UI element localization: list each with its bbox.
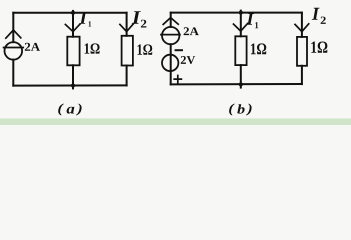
caption (a): letter a bbox=[67, 107, 75, 114]
wire: (a) middle branch upper bbox=[72, 11, 74, 37]
caption (a): paren open bbox=[58, 104, 64, 116]
label I2 (b): I bbox=[312, 8, 320, 20]
caption (b): paren open bbox=[229, 104, 235, 116]
resistor R4 (b) box bbox=[297, 37, 307, 66]
resistor R1 (a) box bbox=[67, 37, 79, 66]
wire: (b) right branch upper bbox=[301, 13, 303, 37]
label I1 (b): I bbox=[246, 13, 254, 24]
label 2A (a) bbox=[25, 43, 40, 51]
label 1 ohm (b) middle bbox=[251, 43, 266, 54]
current source IS2 arrow (up) bbox=[163, 18, 178, 25]
junction node (a) top bbox=[71, 11, 75, 15]
wire: (a) right branch upper bbox=[126, 13, 128, 36]
label I1 (a): I bbox=[79, 12, 87, 23]
wire: (b) middle branch upper bbox=[240, 11, 242, 37]
wire: (a) right branch lower bbox=[126, 66, 128, 86]
junction node (b) bottom bbox=[239, 82, 243, 86]
circuit (a) top wire bbox=[13, 12, 126, 14]
caption (a): paren close bbox=[76, 104, 82, 116]
caption (b): letter b bbox=[237, 104, 244, 113]
label I2 (a): I bbox=[132, 11, 141, 23]
current source IS2 2A circle bbox=[162, 27, 179, 44]
wire: (b) middle branch lower bbox=[240, 65, 242, 88]
arrow I2 (b) (down) bbox=[295, 24, 309, 32]
circuit (b) bottom wire bbox=[171, 83, 302, 85]
current source IS1 arrow (up) bbox=[6, 30, 21, 38]
resistor R3 (b) box bbox=[235, 36, 246, 65]
label I2 (b): sub 2 bbox=[321, 17, 326, 24]
label I1 (a): sub 1 bbox=[89, 21, 92, 26]
green footer strip bbox=[0, 118, 351, 119]
wire: (b) right branch lower bbox=[301, 66, 303, 84]
plus polarity mark bbox=[174, 76, 181, 83]
wire: (a) left branch lower bbox=[12, 60, 14, 86]
resistor R2 (a) box bbox=[122, 36, 133, 66]
minus polarity mark bbox=[176, 49, 182, 51]
wire: (b) left branch through voltage source bbox=[170, 44, 172, 84]
wire: (a) left branch upper bbox=[12, 13, 14, 42]
arrow I2 (down) bbox=[120, 24, 133, 32]
voltage source US 2V circle bbox=[162, 55, 178, 71]
current source IS1 2A circle bbox=[5, 42, 23, 60]
label 2A (b) bbox=[184, 27, 199, 35]
wire: (a) middle branch lower bbox=[72, 65, 74, 88]
current source IS1 bar bbox=[4, 47, 24, 49]
arrow I1 (down) bbox=[65, 24, 80, 32]
caption (b): paren close bbox=[246, 104, 252, 116]
label I2 (a): sub 2 bbox=[141, 20, 146, 28]
arrow I1 (b) (down) bbox=[234, 23, 248, 31]
label I1 (b): sub 1 bbox=[255, 22, 258, 28]
label 1 ohm (b) right bbox=[311, 42, 327, 53]
label 2V (b) bbox=[181, 56, 195, 64]
circuit (b) top wire bbox=[171, 12, 302, 14]
junction node (a) bottom bbox=[71, 84, 75, 88]
label 1 ohm (a) right bbox=[137, 44, 152, 54]
junction node (b) top bbox=[239, 11, 243, 15]
current source IS2 bar bbox=[161, 34, 180, 36]
wire: (b) left branch upper bbox=[170, 13, 172, 27]
label 1 ohm (a) middle bbox=[85, 43, 100, 53]
circuit (a) bottom wire bbox=[13, 84, 126, 86]
